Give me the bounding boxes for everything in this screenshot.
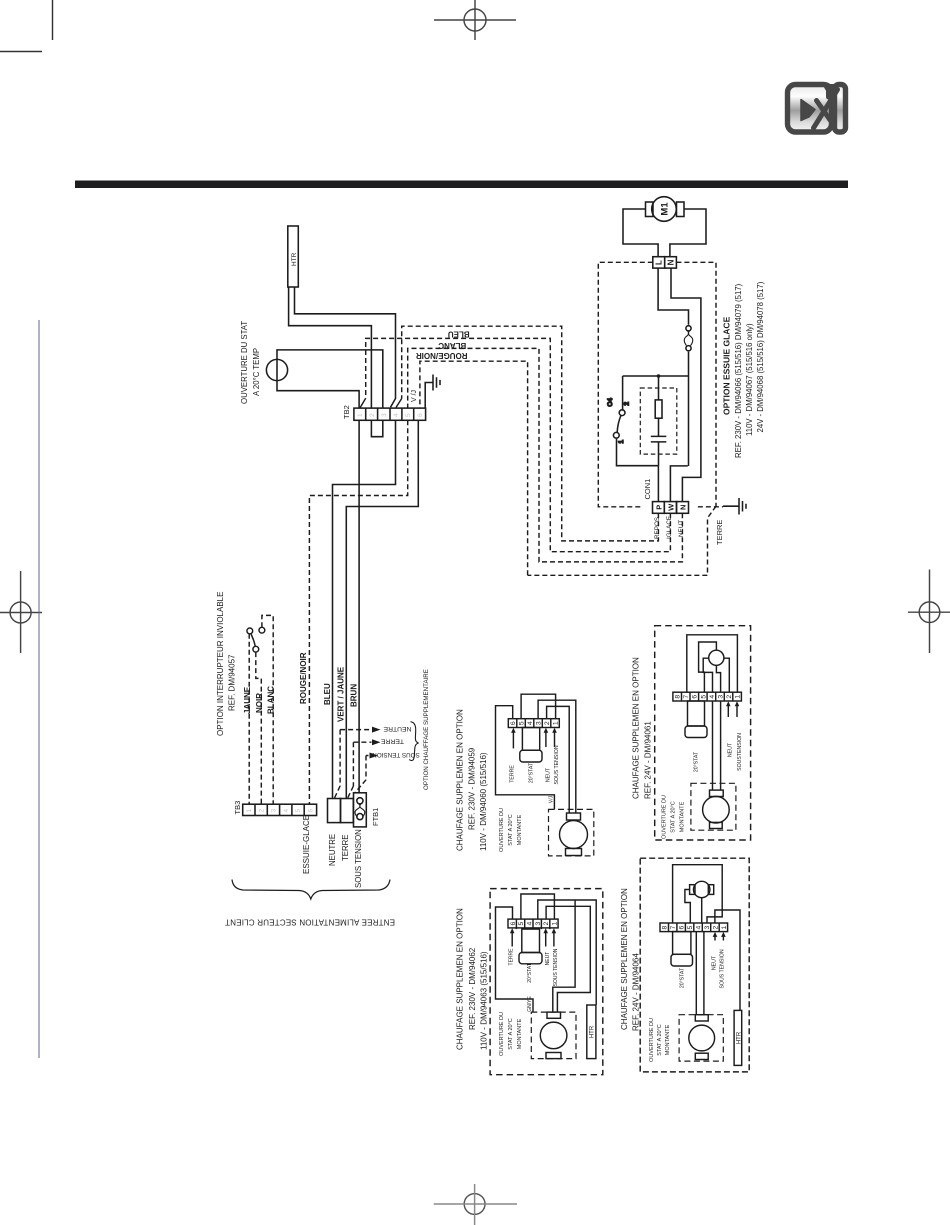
svg-text:3: 3 [271, 809, 278, 813]
ground at TB2 [425, 375, 440, 409]
arrow A TERRE [512, 732, 514, 749]
svg-text:5: 5 [700, 695, 707, 699]
registration cross bottom-center [434, 1184, 517, 1225]
svg-text:3: 3 [717, 695, 724, 699]
wire B pair down to motor [713, 701, 721, 790]
dashed option box B [655, 626, 751, 840]
svg-text:5: 5 [405, 413, 412, 417]
wire VERT/JAUNE TB2-6 to TERRE block [346, 420, 418, 798]
wire B circle-right to cell2 [724, 658, 729, 692]
svg-text:NEUT: NEUT [546, 767, 552, 782]
arrowheads A [511, 728, 557, 733]
svg-text:OPTION CHAUFFAGE SUPPLEMENTAIR: OPTION CHAUFFAGE SUPPLEMENTAIRE [423, 669, 430, 790]
svg-text:JAUNE: JAUNE [243, 686, 252, 714]
svg-text:4: 4 [527, 721, 534, 725]
svg-text:CHAUFAGE SUPPLEMEN EN OPTION: CHAUFAGE SUPPLEMEN EN OPTION [632, 657, 641, 799]
switch S contact 1 [613, 432, 619, 438]
svg-text:VERT / JAUNE: VERT / JAUNE [337, 666, 346, 722]
wire bottom rail to P [657, 466, 659, 502]
arrow A NEUT [545, 732, 547, 748]
heater HTR-C body [522, 929, 540, 952]
wire fuse down to W junction [688, 352, 690, 466]
svg-text:4: 4 [709, 695, 716, 699]
arrowhead TERRE [372, 739, 381, 745]
switch S2 blade [251, 634, 256, 647]
svg-text:IGLACE: IGLACE [666, 516, 673, 539]
svg-text:TB3: TB3 [233, 801, 242, 815]
wire C1 to bottom rail [658, 442, 660, 466]
faint blue vertical rule left [38, 320, 40, 1058]
svg-text:HTR: HTR [590, 1025, 596, 1038]
svg-text:OUVERTURE DU: OUVERTURE DU [649, 1018, 655, 1062]
motor D top [694, 881, 710, 897]
heater HTR-C aux resistor [587, 1005, 596, 1059]
dashed motor box A [549, 809, 594, 856]
wire BLEU TB2-4 to NEUTRE block [333, 420, 396, 798]
dashed wire BLANC (W/GLACE to TB2-1) [366, 338, 671, 551]
TB-A terminal numbers [510, 721, 560, 725]
heater HTR-C cap [519, 953, 542, 964]
svg-text:BRUN: BRUN [350, 684, 359, 707]
motor B2 bottom pad [710, 822, 723, 828]
arrowhead NEUTRE [372, 727, 381, 733]
dashed motor box C [531, 1012, 576, 1059]
svg-text:3: 3 [381, 413, 388, 417]
terminal strip TB-B [673, 692, 742, 701]
wire W to fuse branch [670, 466, 687, 502]
svg-text:24V - DM/94068 (515/516) DM/94: 24V - DM/94068 (515/516) DM/94078 (517) [756, 281, 765, 432]
svg-text:5: 5 [518, 921, 525, 925]
svg-text:5: 5 [518, 721, 525, 725]
dashed option box D [640, 858, 749, 1072]
svg-text:2: 2 [726, 695, 733, 699]
motor A [560, 821, 588, 849]
registration cross top-center [434, 0, 516, 40]
dashed wire contact b up-over to TB3-3 [262, 615, 273, 804]
dashed tap NEUTRE [335, 730, 341, 798]
arrow D NEUT [714, 936, 716, 941]
svg-text:CHAUFAGE SUPPLEMEN EN OPTION: CHAUFAGE SUPPLEMEN EN OPTION [620, 888, 629, 1030]
svg-text:20°STAT: 20°STAT [527, 963, 533, 983]
svg-text:REPOS: REPOS [654, 517, 661, 539]
motor M1 left brush pad [646, 202, 654, 217]
switch S contact 2 wire [622, 376, 624, 410]
svg-text:6: 6 [679, 925, 686, 929]
motor D pads [690, 885, 695, 895]
svg-text:NEUT: NEUT [678, 520, 685, 537]
dashed option box C [490, 889, 603, 1075]
junction dot relay rail [657, 374, 661, 378]
svg-text:NEUTRE: NEUTRE [383, 725, 411, 732]
wire diag BLEU into TB2-4 [396, 399, 402, 408]
svg-text:MONTANTE: MONTANTE [680, 801, 686, 832]
svg-text:STAT A 20°C: STAT A 20°C [508, 814, 514, 846]
registration cross right-middle [908, 570, 950, 654]
motor D2 [689, 1025, 715, 1051]
wire A cell3 to motor lead1 [538, 700, 576, 813]
jumper TB2 2-3 [371, 420, 382, 436]
motor D2 bottom pad [695, 1053, 708, 1059]
svg-text:6: 6 [510, 921, 517, 925]
svg-text:2: 2 [712, 925, 719, 929]
dashed wire V/J (TERRE to TB2-6) [420, 361, 528, 575]
svg-text:O4: O4 [607, 398, 614, 407]
wire A cell2 to motor lead2 [547, 706, 570, 813]
dashed wire JAUNE to TB3-1 [248, 634, 250, 804]
svg-text:OPTION INTERRUPTEUR INVIOLABLE: OPTION INTERRUPTEUR INVIOLABLE [216, 592, 225, 736]
svg-text:6: 6 [417, 413, 424, 417]
wire D left lead [685, 890, 690, 924]
svg-text:1: 1 [246, 809, 253, 813]
svg-text:4: 4 [527, 921, 534, 925]
terminal N [665, 257, 677, 268]
svg-text:7: 7 [670, 925, 677, 929]
heater HTR-A body [522, 728, 539, 751]
wire diag BLANC into TB2-1 [360, 398, 366, 407]
svg-text:2: 2 [543, 921, 550, 925]
capacitor C1 [651, 436, 667, 442]
svg-text:110V - DM/94063 (515/516): 110V - DM/94063 (515/516) [480, 951, 489, 1050]
brace ENTREE [232, 880, 390, 900]
svg-text:REF. DM/94057: REF. DM/94057 [228, 654, 237, 711]
wire D HTR feed [715, 910, 740, 1010]
svg-text:110V - DM/94060 (515/516): 110V - DM/94060 (515/516) [479, 752, 488, 851]
TB-C terminal numbers [510, 921, 559, 925]
svg-text:ROUGE/NOIR: ROUGE/NOIR [416, 351, 468, 360]
TB-B terminal numbers [675, 695, 742, 699]
svg-text:SOUS TENSION: SOUS TENSION [720, 949, 726, 988]
motor B2 top pad [710, 790, 724, 796]
motor B top [709, 650, 724, 665]
svg-text:1: 1 [735, 695, 742, 699]
svg-text:P: P [655, 505, 664, 510]
svg-text:TB2: TB2 [342, 405, 351, 419]
svg-text:HTR: HTR [737, 1031, 743, 1044]
svg-text:M1: M1 [660, 202, 671, 216]
svg-text:2: 2 [258, 809, 265, 813]
switch S blade [617, 416, 621, 433]
svg-text:6: 6 [692, 695, 699, 699]
thermal fuse F1 [686, 326, 691, 331]
wire C loop cell5-cell1 [521, 894, 555, 919]
wire M1 right to terminal N [670, 209, 706, 257]
svg-text:MONTANTE: MONTANTE [665, 1024, 671, 1055]
svg-text:TERRE: TERRE [509, 948, 515, 966]
svg-text:BLEU: BLEU [448, 330, 470, 339]
terminal block TB2 [354, 408, 426, 420]
motor A top pad [567, 813, 581, 820]
svg-text:5: 5 [687, 925, 694, 929]
arrowheads D [713, 932, 726, 937]
svg-text:8: 8 [662, 925, 669, 929]
svg-text:TERRE: TERRE [381, 738, 405, 745]
svg-text:8: 8 [675, 695, 682, 699]
svg-text:REF. 24V - DM/94064: REF. 24V - DM/94064 [632, 953, 641, 1031]
wire switch to bottom rail [617, 438, 659, 466]
DM logo top-right [788, 84, 846, 132]
heater HTR-A cap [520, 750, 542, 762]
svg-text:7: 7 [683, 695, 690, 699]
svg-text:REF. 230V - DM/94059: REF. 230V - DM/94059 [468, 747, 477, 830]
dashed option box essuie glace [598, 262, 653, 507]
dashed tap SOUS TENSION [355, 756, 366, 793]
arrow D SOUS [722, 936, 724, 941]
wire HTR right to TB2-4 [295, 287, 396, 407]
svg-text:STAT A 20°C: STAT A 20°C [508, 1018, 514, 1050]
svg-text:NEUT: NEUT [545, 952, 551, 966]
connector CON1 [653, 502, 689, 514]
svg-text:4: 4 [695, 925, 702, 929]
motor C top pad [547, 1012, 561, 1018]
motor M1 right brush pad [677, 202, 685, 217]
dashed motor box D [679, 1015, 723, 1061]
wire L down to junction [658, 268, 688, 325]
svg-text:L: L [655, 260, 664, 265]
svg-text:N: N [679, 505, 688, 510]
wire stat bottom to TB2-1 [277, 381, 359, 409]
svg-text:TERRE: TERRE [510, 765, 516, 783]
svg-text:3: 3 [704, 925, 711, 929]
dashed RC snubber box [640, 388, 677, 454]
fuse block FTB1 [354, 793, 367, 827]
svg-text:1: 1 [552, 921, 559, 925]
wire C cell2 to motor lead2 + HTR feed [546, 906, 590, 1012]
svg-text:2: 2 [624, 402, 631, 406]
switch S contact 2 [619, 410, 625, 416]
switch S2 contact b [259, 627, 265, 633]
terminal block TB3 [243, 804, 317, 815]
svg-text:A 20°C TEMP: A 20°C TEMP [252, 348, 261, 396]
svg-text:CHAUFAGE SUPPLEMEN EN OPTION: CHAUFAGE SUPPLEMEN EN OPTION [456, 908, 465, 1050]
svg-text:W: W [667, 503, 676, 511]
svg-text:BLANC: BLANC [438, 341, 466, 350]
ground at CON1 [723, 498, 746, 515]
svg-text:OUVERTURE DU: OUVERTURE DU [499, 1012, 505, 1056]
arrow A SOUS [554, 732, 556, 748]
svg-text:NEUT: NEUT [728, 742, 734, 757]
heater HTR-D cap [671, 954, 693, 966]
svg-text:ESSUIE-GLACE: ESSUIE-GLACE [302, 815, 311, 874]
TB3 terminal numbers [246, 809, 315, 813]
wire stat top to TB2-3 [277, 350, 383, 408]
svg-text:N: N [666, 259, 675, 265]
switch S2 contact a [247, 628, 253, 634]
svg-text:STAT A 20°C: STAT A 20°C [657, 1024, 663, 1056]
wire C cell3 to motor lead1 [538, 900, 596, 1005]
svg-text:NEUTRE: NEUTRE [328, 834, 337, 866]
svg-text:NEUT: NEUT [712, 955, 718, 970]
dashed tap TERRE [348, 742, 354, 798]
terminal block NEUTRE [328, 793, 367, 827]
svg-text:STAT A 20°C: STAT A 20°C [671, 801, 677, 833]
wire R1 to C1 [658, 418, 660, 436]
heater HTR-B cap [685, 726, 707, 738]
svg-text:5: 5 [295, 809, 302, 813]
svg-text:1: 1 [618, 440, 625, 444]
heater HTR [288, 226, 299, 287]
svg-text:110V - DM/94067 (515/516 only): 110V - DM/94067 (515/516 only) [745, 323, 754, 436]
svg-text:1: 1 [552, 721, 559, 725]
svg-text:CON1: CON1 [643, 479, 652, 500]
registration cross left-middle [0, 571, 42, 653]
arrowheads C [510, 928, 556, 933]
wire D loop cell7 to cell3 [673, 865, 723, 923]
motor D2 top pad [695, 1015, 708, 1021]
svg-text:SOUS TENSION: SOUS TENSION [372, 751, 420, 758]
svg-text:3: 3 [535, 721, 542, 725]
wire D pair down to motor [696, 932, 704, 1015]
resistor R1 [655, 400, 662, 418]
svg-text:1: 1 [357, 413, 364, 417]
svg-text:V/J: V/J [549, 795, 555, 803]
svg-text:6: 6 [308, 809, 315, 813]
svg-text:V /J: V /J [411, 390, 418, 402]
svg-text:SOUS TENSION: SOUS TENSION [554, 745, 560, 784]
svg-text:6: 6 [510, 721, 517, 725]
terminal block TERRE [341, 799, 354, 823]
relay top rail [623, 375, 689, 377]
arrowheads B [726, 701, 739, 706]
wire A cell6 earth path [496, 706, 555, 810]
dashed motor box B [691, 783, 736, 830]
TB2 terminal numbers [357, 413, 424, 417]
svg-text:3: 3 [535, 921, 542, 925]
motor M1 [652, 197, 677, 222]
wire B loop cell7-right [687, 635, 738, 692]
arrow B NEUT [727, 706, 729, 718]
crop mark top-left [0, 0, 53, 52]
svg-text:OUVERTURE DU: OUVERTURE DU [499, 808, 505, 852]
terminal strip TB-D [660, 923, 728, 932]
svg-text:GN/YE: GN/YE [527, 996, 533, 1012]
heater HTR-D body [673, 932, 691, 955]
terminal L [653, 257, 665, 268]
svg-text:ROUGE/NOIR: ROUGE/NOIR [299, 652, 308, 704]
motor C bottom pad [546, 1053, 561, 1059]
wire N to motor N [671, 268, 701, 502]
svg-text:SOUS TENSION: SOUS TENSION [354, 829, 363, 888]
thermostat stem [276, 359, 278, 380]
wire BRUN TB2-1 to FTB1 [358, 420, 360, 793]
svg-text:2: 2 [369, 413, 376, 417]
svg-text:4: 4 [393, 413, 400, 417]
arrow C TERRE [511, 932, 513, 946]
svg-text:MONTANTE: MONTANTE [517, 1018, 523, 1049]
arrow C NEUT [545, 932, 547, 946]
svg-text:BLEU: BLEU [323, 683, 332, 705]
svg-text:2: 2 [544, 721, 551, 725]
thermostat B1 circle [266, 359, 287, 380]
svg-text:TERRE: TERRE [715, 520, 724, 545]
svg-text:NOIR: NOIR [255, 693, 264, 713]
wire HTR left to TB2-2 [289, 287, 372, 408]
wire R1 top [658, 376, 660, 400]
thick black horizontal rule [75, 181, 848, 189]
svg-text:BLANC: BLANC [267, 686, 276, 714]
wire B circle-left to cell4 [703, 658, 712, 692]
heater HTR-B body [688, 701, 705, 726]
svg-text:4: 4 [283, 809, 290, 813]
svg-text:MONTANTE: MONTANTE [517, 814, 523, 845]
terminal strip TB-A [508, 719, 559, 728]
svg-text:SOUSTENSION: SOUSTENSION [737, 733, 743, 771]
svg-text:CHAUFAGE SUPPLEMEN EN OPTION: CHAUFAGE SUPPLEMEN EN OPTION [456, 709, 465, 851]
svg-text:ENTREE ALIMENTATION SECTEUR: ENTREE ALIMENTATION SECTEUR CLIENT [225, 918, 395, 927]
svg-text:SOUS TENSION: SOUS TENSION [553, 948, 559, 986]
wire C cell6 earth path [496, 907, 534, 1012]
svg-text:FTB1: FTB1 [371, 808, 380, 826]
dashed wire ROUGE/NOIR (N/NEUT to TB2-5) [408, 348, 683, 562]
svg-text:OUVERTURE DU STAT: OUVERTURE DU STAT [240, 321, 249, 404]
svg-text:20°STAT: 20°STAT [529, 762, 535, 783]
TB-D terminal numbers [662, 925, 728, 929]
terminal strip TB-C [508, 919, 558, 928]
dashed wire BLEU (P/REPOS to TB2-4) [402, 326, 659, 541]
svg-text:REF. 230V - DM/94062: REF. 230V - DM/94062 [468, 947, 477, 1030]
arrow C SOUS [553, 932, 555, 946]
heater HTR-D aux resistor [734, 1010, 742, 1065]
svg-text:REF. 230V - DM/94066 (515/516): REF. 230V - DM/94066 (515/516) DM/94079 … [734, 283, 743, 458]
svg-text:TERRE: TERRE [341, 835, 350, 861]
dashed wire common to TB3-2 [256, 652, 261, 804]
svg-text:OUVERTURE DU: OUVERTURE DU [662, 795, 668, 839]
motor C [540, 1022, 567, 1049]
svg-text:1: 1 [721, 925, 728, 929]
arrow B SOUS [736, 706, 738, 718]
svg-text:OPTION ESSUIE GLACE: OPTION ESSUIE GLACE [722, 316, 732, 415]
wire A loop cell5-cell1 [521, 694, 556, 719]
svg-text:REF. 24V - DM/94061: REF. 24V - DM/94061 [643, 721, 652, 799]
wire B circle-bottom to cell3 [716, 665, 720, 692]
switch S2 common [253, 646, 259, 652]
motor B2 [703, 796, 730, 823]
svg-text:20°STAT: 20°STAT [679, 967, 685, 988]
brace small [409, 722, 419, 761]
wire M1 left to terminal L [623, 209, 658, 257]
svg-text:20°STAT: 20°STAT [694, 751, 700, 772]
motor A bottom pad [566, 849, 582, 856]
dashed wire ROUGE/NOIR TB2-5 to TB3-6 [309, 420, 407, 804]
wire D bottom lead [701, 898, 703, 923]
wire B circle-top to cell5 [699, 642, 717, 692]
svg-text:HTR: HTR [291, 252, 298, 266]
arrowhead SOUS TENSION [370, 753, 379, 759]
